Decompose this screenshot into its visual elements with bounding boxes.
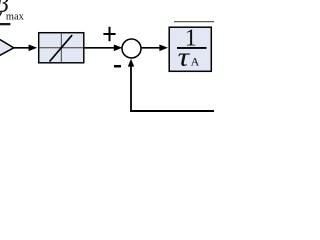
beta descender tail (0, 11, 2, 16)
fraction bar of 1/tauA (177, 47, 207, 49)
arrowhead into 1/tau block (159, 45, 168, 52)
feedback wire vertical (130, 64, 132, 111)
feedback wire horizontal (130, 110, 214, 112)
summing junction S1 (122, 39, 141, 58)
minus sign (114, 65, 121, 68)
wire from summing junction to 1/tau block (142, 47, 162, 49)
fraction bar under beta (0, 23, 10, 25)
limiter block L1 (39, 33, 84, 63)
arrowhead into summing junction (114, 45, 123, 52)
svg-text:max: max (6, 12, 25, 23)
limiter vertical axis (60, 33, 62, 63)
gain block G1 (clipped at left edge) (0, 35, 14, 60)
arrowhead into limiter (29, 45, 38, 52)
limiter slope characteristic (50, 36, 72, 61)
arrowhead up into summing junction (128, 59, 134, 67)
wire from limiter to summing junction (85, 47, 117, 49)
block U1 1/tauA (169, 27, 211, 71)
plus sign (103, 27, 115, 42)
svg-text:A: A (191, 55, 200, 69)
limiter horizontal axis (39, 47, 84, 49)
wire from G1 to limiter (14, 47, 30, 49)
thin line top right (174, 21, 214, 23)
